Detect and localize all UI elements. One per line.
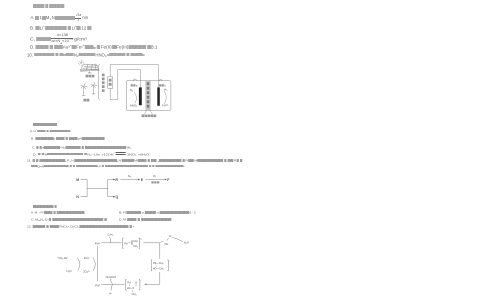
svg-text:H2: H2 [164, 87, 168, 91]
svg-text:H2O: H2O [184, 241, 189, 245]
arrow to Q [108, 196, 114, 198]
svg-text:N: N [76, 195, 79, 199]
electrode a (black) [139, 87, 142, 105]
svg-text:CH2: CH2 [133, 239, 138, 243]
svg-text:H: H [135, 280, 137, 284]
label: wind energy [84, 99, 87, 102]
arrow E to F [145, 179, 165, 181]
question 9 options text block [33, 4, 64, 9]
svg-text:½O2,2H+: ½O2,2H+ [58, 256, 70, 260]
Wacker mechanism cycle (Q12) [45, 230, 195, 300]
svg-text:2Cu2+: 2Cu2+ [83, 270, 91, 274]
line complex2 down, left arrow to complex3 [146, 272, 160, 284]
wire: power supply top to electrode b [110, 65, 158, 88]
svg-text:R: R [115, 178, 118, 182]
wire M to junction [81, 180, 88, 189]
svg-text:CH3CHO: CH3CHO [106, 275, 117, 279]
line complex3 to Pd0 [101, 283, 124, 285]
complex 2 bracket [Pd-CH2 / HO-CH2]+ [151, 260, 170, 271]
svg-text:H+: H+ [169, 234, 172, 238]
cell port bump left [133, 79, 136, 81]
split vertical [107, 180, 109, 197]
svg-text:HC–O: HC–O [127, 286, 134, 290]
curve to H2O [172, 237, 183, 241]
Cu cycle arc left [77, 258, 80, 270]
membrane strip (solid electrolyte) [146, 81, 151, 111]
solar panel [81, 64, 99, 71]
brace line (energy sources to power) [99, 64, 100, 99]
wind turbine 1 [81, 83, 88, 95]
svg-text:+: + [140, 280, 142, 282]
Cu cycle arc right [93, 258, 96, 271]
arrow curve left chamber (N2 to HNO3) [134, 92, 137, 103]
svg-text:OH: OH [164, 242, 168, 246]
electrolysis cell vessel [126, 81, 171, 111]
label: solar energy [86, 75, 89, 78]
svg-text:N2: N2 [130, 88, 134, 92]
label: electrode a [131, 84, 133, 86]
electrode b (black) [157, 87, 160, 105]
svg-text:CH2: CH2 [133, 244, 138, 248]
svg-text:HNO3: HNO3 [130, 104, 138, 108]
flow chart (Q11) [70, 170, 176, 204]
label: electrode b [159, 84, 161, 86]
power supply box U1 [108, 77, 113, 88]
label: converted to electricity (vertical) [102, 74, 105, 77]
sun icon [78, 60, 84, 66]
svg-text:2+: 2+ [140, 238, 143, 240]
wire: power supply bottom to electrode a [110, 70, 140, 100]
svg-text:2Cu+: 2Cu+ [84, 256, 91, 260]
svg-text:H+: H+ [109, 292, 112, 296]
wind turbine 2 [91, 82, 97, 94]
svg-text:Q: Q [116, 195, 119, 199]
membrane vertical label blobs [147, 82, 149, 85]
svg-text:H2O: H2O [67, 269, 72, 273]
solar panel stand [88, 71, 91, 73]
svg-text:E: E [141, 178, 144, 182]
wire junction to split [87, 187, 108, 189]
svg-text:Pd: Pd [127, 280, 131, 284]
tick to CH3CHO [110, 279, 112, 284]
pointer lines to electrolyte label [144, 111, 152, 115]
svg-text:N2: N2 [128, 174, 132, 178]
left spine Pd2+ to Pd0 [96, 246, 98, 281]
OH slant from corner [160, 241, 163, 242]
svg-text:F: F [167, 178, 170, 182]
label: electrolyte solution (bottom) [142, 115, 145, 118]
line complex1 to corner, down to complex2 [143, 243, 159, 259]
arrow to R [108, 179, 114, 181]
svg-text:HO—CH2: HO—CH2 [153, 267, 164, 271]
curve OH to H+ [167, 238, 169, 241]
svg-text:M: M [76, 178, 79, 182]
complex 1 bracket [Pd-CH2=CH2]2+ [123, 238, 144, 248]
complex 3 bracket [HPd-CH(CH3)=O]+ [126, 279, 143, 296]
label: power supply (vertical in box) [109, 79, 112, 82]
svg-text:Pd0: Pd0 [95, 283, 100, 287]
svg-text:O2: O2 [153, 174, 157, 178]
svg-text:Pd—CH2: Pd—CH2 [153, 261, 164, 265]
arrow label catalyst (blobs) [151, 181, 159, 183]
wire N to junction [81, 188, 88, 196]
svg-text:+: + [169, 260, 171, 262]
svg-text:Pd2+: Pd2+ [95, 242, 102, 246]
arrow curve right chamber (H2O) [164, 91, 166, 104]
svg-text:H2O: H2O [162, 103, 168, 107]
tick to H+ [111, 284, 113, 290]
tick C2H2 into line [110, 237, 111, 243]
electrolysis device figure (Q10) [60, 58, 200, 122]
svg-text:C2H2: C2H2 [107, 232, 113, 236]
cell port bump right [159, 79, 162, 80]
svg-text:Pd: Pd [124, 241, 128, 245]
svg-text:a: a [136, 83, 138, 87]
arrow R to E [120, 179, 138, 181]
svg-text:CH3: CH3 [132, 292, 137, 296]
line Pd2+ to complex1 [102, 242, 122, 244]
